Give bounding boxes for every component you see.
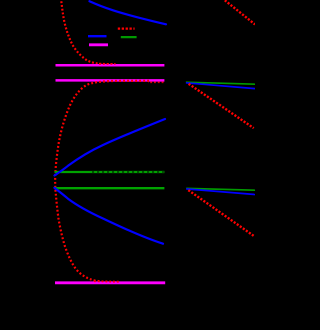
magenta line 1 [56,64,165,67]
magenta line 2 [56,79,165,82]
green line 1 (with dark dashes on right part) [55,171,165,173]
red dots riding on magenta line 1 [99,63,116,65]
right fan 2: red dotted line [189,84,254,128]
right fan 2: blue line [186,83,255,89]
right fan 3: red dotted line [188,190,253,236]
red dotted curve 1 (decays onto magenta line 1) [61,1,114,64]
legend: green sample [121,36,137,38]
blue curve B (rising from green line 1 left end) [55,119,166,176]
bottom magenta line [55,281,165,284]
green line 2 [55,187,165,189]
right fan 3: blue line [186,189,255,195]
red dotted curve 2 (C-shaped, line2 down to bottom magenta line) [148,81,164,83]
dark dashed overlay on green line 1 [92,171,164,173]
legend: red dotted sample [118,28,135,30]
legend: blue sample [88,35,107,37]
blue curve A (top-left, descending) [90,1,167,24]
blue curve C (descending from green line 2 left end) [54,188,163,244]
red dots riding on bottom magenta line [94,280,119,283]
right fan 2: green line [186,82,255,84]
right fan 3: green line [186,188,255,190]
right fan 1: red dotted diagonal (top-right corner) [225,0,255,24]
legend: magenta sample [89,43,108,46]
